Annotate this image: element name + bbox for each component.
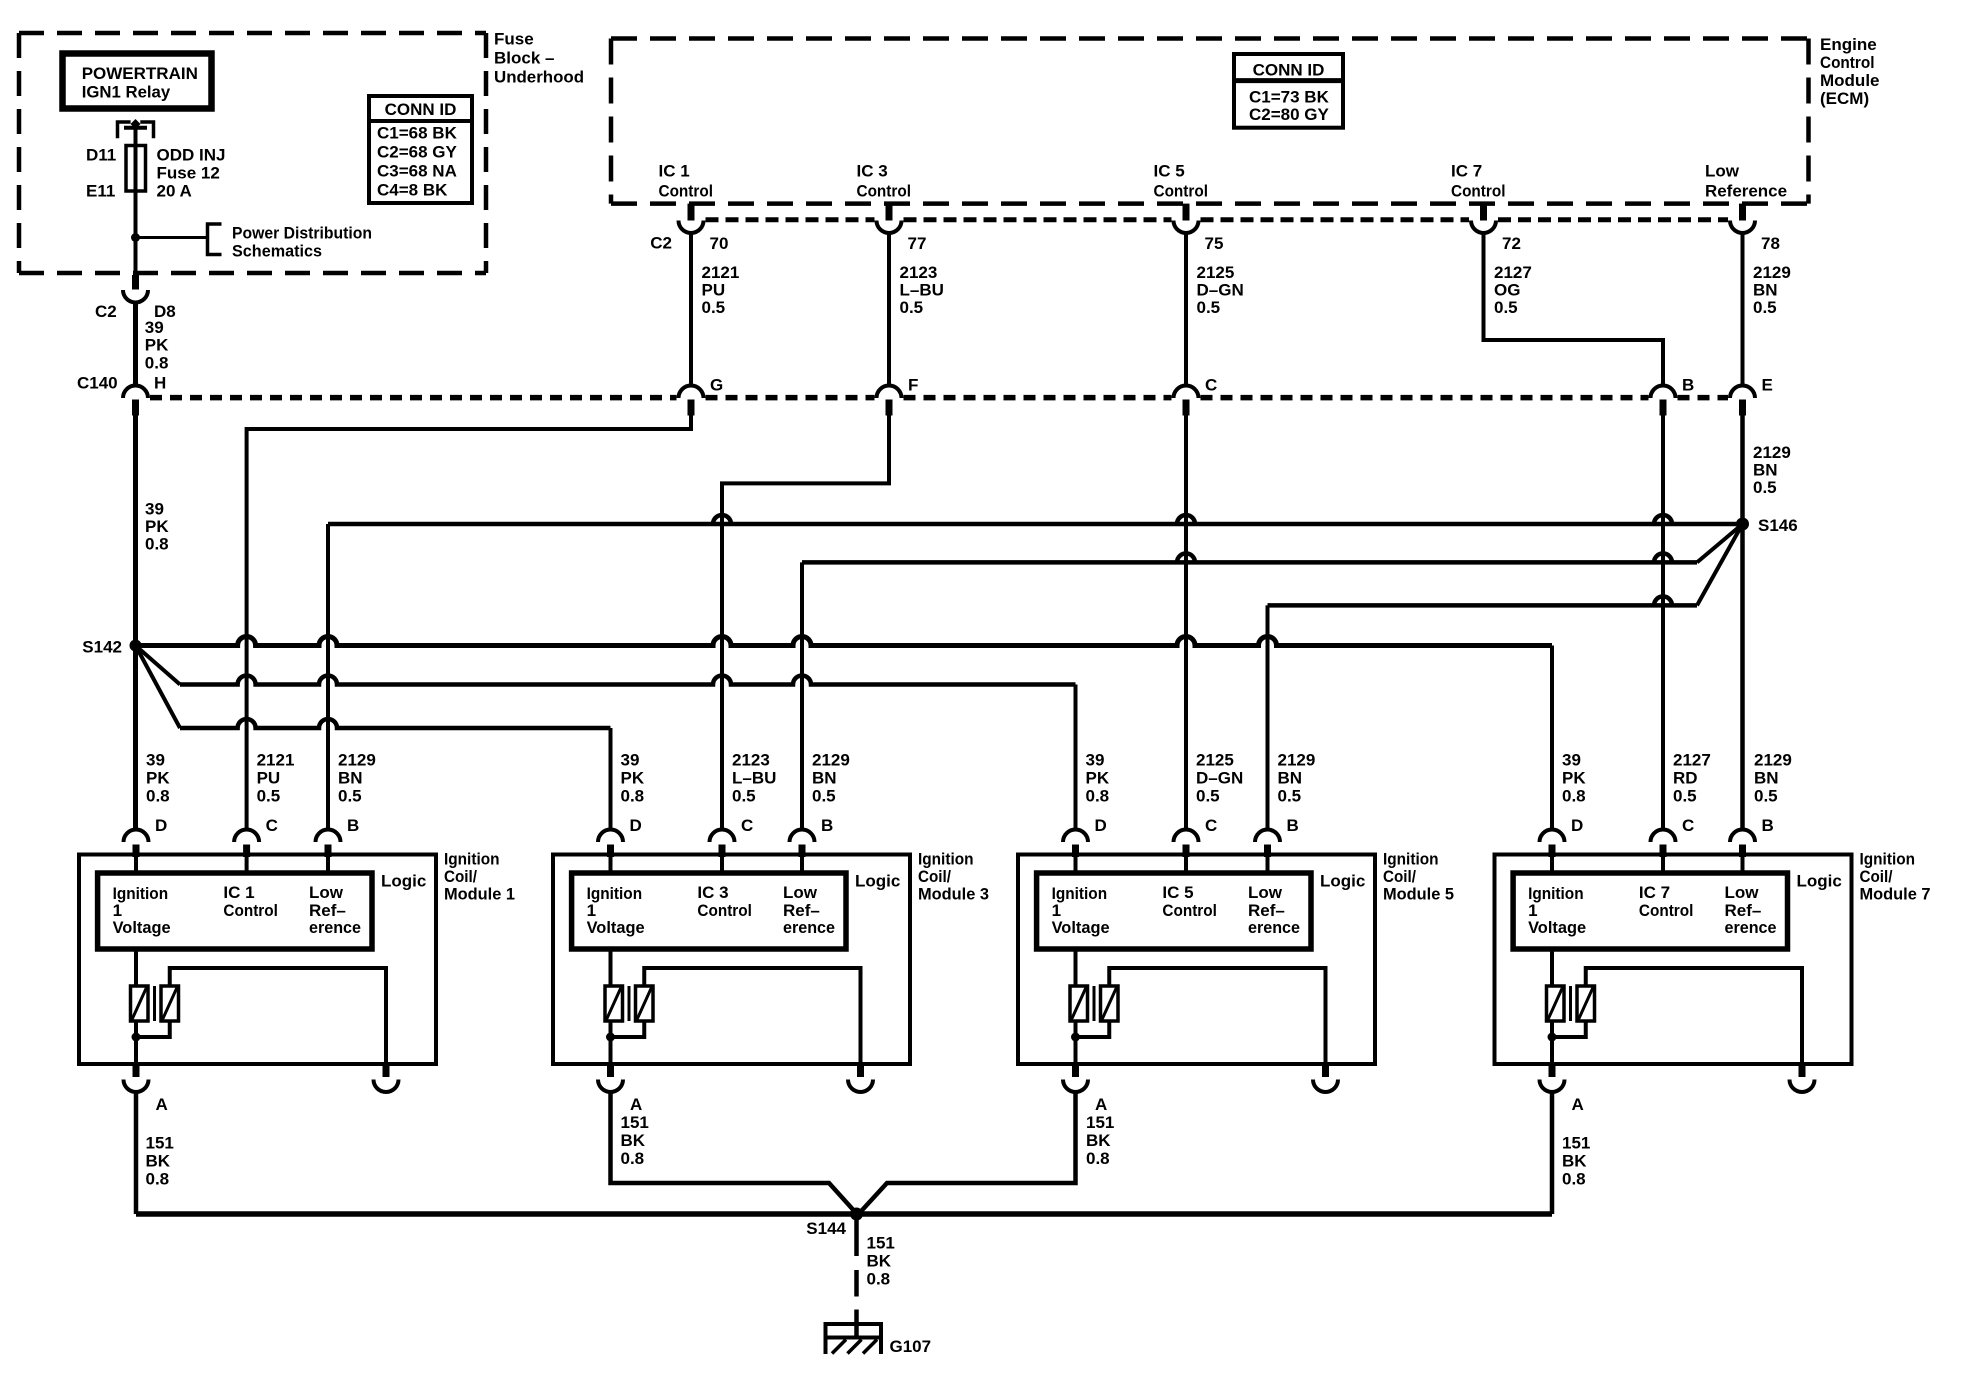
module 7 coil core	[1569, 986, 1572, 1021]
svg-text:0.5: 0.5	[812, 787, 836, 806]
module 7 pin A connector	[1549, 1064, 1556, 1077]
svg-text:B: B	[821, 816, 833, 835]
wire S142 trunk to module7 ignition voltage	[136, 637, 1553, 646]
ignition coil module 7 box	[1495, 855, 1852, 1065]
module 5 pin D connector	[1063, 830, 1088, 843]
C140 pin C connector	[1174, 386, 1199, 399]
svg-text:Voltage: Voltage	[113, 918, 171, 937]
wire relay to fuse	[134, 129, 138, 146]
svg-text:IC 1: IC 1	[223, 883, 254, 902]
svg-text:Module 7: Module 7	[1860, 885, 1931, 904]
module 1 coil core	[153, 986, 156, 1021]
wire IC3 control to C140 F	[887, 233, 891, 386]
svg-text:0.8: 0.8	[621, 787, 645, 806]
svg-text:Coil/: Coil/	[1860, 867, 1893, 886]
module 7 secondary return wire	[1586, 968, 1802, 1064]
ground bus wire	[136, 1211, 1552, 1217]
wire module7 A to ground bus	[1550, 1092, 1555, 1214]
svg-text:BN: BN	[1753, 281, 1778, 300]
svg-text:BN: BN	[1753, 461, 1778, 480]
svg-text:0.5: 0.5	[1673, 787, 1697, 806]
svg-text:39: 39	[1562, 751, 1581, 770]
svg-text:B: B	[1682, 376, 1694, 395]
svg-text:0.5: 0.5	[1754, 787, 1778, 806]
C140 pin B connector	[1651, 386, 1676, 399]
wire IC5 control to C140 C	[1184, 233, 1188, 386]
POWERTRAIN IGN1 Relay box	[63, 54, 212, 109]
svg-text:D: D	[1095, 816, 1107, 835]
svg-text:151: 151	[867, 1234, 895, 1253]
svg-text:75: 75	[1205, 234, 1224, 253]
svg-text:IC 3: IC 3	[697, 883, 728, 902]
svg-text:151: 151	[1086, 1113, 1114, 1132]
svg-text:2129: 2129	[1753, 263, 1791, 282]
svg-text:E11: E11	[86, 182, 115, 201]
module 1 secondary return wire	[170, 968, 386, 1064]
module 7 coil common junction	[1550, 1021, 1554, 1064]
svg-text:Module 1: Module 1	[444, 885, 515, 904]
svg-text:C: C	[1205, 376, 1217, 395]
svg-text:D: D	[1571, 816, 1583, 835]
svg-text:C3=68 NA: C3=68 NA	[377, 162, 457, 181]
svg-text:BK: BK	[621, 1131, 646, 1150]
svg-text:0.5: 0.5	[732, 787, 756, 806]
wire G to module1 IC1 control	[247, 416, 691, 830]
splice S146	[1736, 518, 1749, 531]
module 7 pin C connector	[1651, 830, 1676, 843]
svg-text:A: A	[630, 1095, 642, 1114]
svg-text:erence: erence	[1248, 918, 1300, 937]
module 7 logic label box	[1513, 873, 1787, 949]
module 3 pin A connector	[607, 1064, 614, 1077]
wire fuse to C2 connector	[134, 238, 138, 276]
svg-text:F: F	[908, 376, 918, 395]
module 3 coil common junction	[609, 1021, 613, 1064]
svg-text:CONN ID: CONN ID	[1253, 61, 1325, 80]
svg-text:0.8: 0.8	[146, 1170, 170, 1189]
svg-text:D11: D11	[86, 146, 116, 165]
module 3 coil secondary winding	[636, 986, 654, 1021]
svg-text:39: 39	[145, 318, 164, 337]
svg-text:C2=80 GY: C2=80 GY	[1249, 105, 1330, 124]
svg-text:2123: 2123	[732, 751, 770, 770]
C140 inline connector dashed line	[150, 395, 677, 401]
svg-text:POWERTRAIN: POWERTRAIN	[82, 64, 198, 83]
svg-text:C140: C140	[77, 374, 118, 393]
svg-text:Ignition: Ignition	[918, 850, 974, 869]
svg-text:Block –: Block –	[494, 49, 554, 68]
module 5 pin B connector	[1255, 830, 1280, 842]
module 7 secondary pin connector	[1799, 1064, 1806, 1077]
svg-text:Logic: Logic	[855, 872, 900, 891]
svg-text:0.8: 0.8	[146, 787, 170, 806]
wire S146 branch to module5 low ref	[1697, 524, 1743, 605]
module 3 pin B connector	[790, 830, 815, 842]
svg-text:BN: BN	[812, 769, 837, 788]
svg-text:0.5: 0.5	[1753, 298, 1777, 317]
svg-text:(ECM): (ECM)	[1820, 89, 1869, 108]
svg-text:39: 39	[621, 751, 640, 770]
svg-text:B: B	[1762, 816, 1774, 835]
module 1 pin A connector	[133, 1064, 140, 1077]
wire module1 A to ground bus 151 BK	[134, 1092, 139, 1214]
svg-text:2129: 2129	[1754, 751, 1792, 770]
module 3 logic label box	[572, 873, 846, 949]
module 3 coil primary winding	[609, 949, 613, 986]
svg-text:C: C	[266, 816, 278, 835]
module 1 coil secondary winding	[161, 986, 179, 1021]
svg-text:0.5: 0.5	[1278, 787, 1302, 806]
module 3 secondary return wire	[644, 968, 860, 1064]
svg-text:ODD INJ: ODD INJ	[157, 146, 226, 165]
ECM pin 75 connector	[1183, 204, 1190, 221]
svg-text:Control: Control	[1154, 182, 1209, 201]
C140 pin F connector	[877, 386, 902, 399]
ECM pin 78 connector	[1739, 204, 1746, 221]
ground symbol G107	[824, 1322, 884, 1326]
module 1 coil primary winding	[134, 949, 138, 986]
svg-text:0.8: 0.8	[1562, 787, 1586, 806]
svg-text:IC 7: IC 7	[1639, 883, 1670, 902]
fuse block CONN ID table	[369, 96, 472, 203]
svg-text:BK: BK	[1562, 1152, 1587, 1171]
svg-text:BK: BK	[146, 1152, 171, 1171]
svg-text:S142: S142	[82, 638, 122, 657]
fuse rectangle	[126, 146, 146, 192]
power distribution bracket symbol	[208, 224, 222, 255]
module 5 secondary return wire	[1109, 968, 1325, 1064]
svg-text:D–GN: D–GN	[1196, 769, 1243, 788]
svg-text:B: B	[1287, 816, 1299, 835]
svg-text:2125: 2125	[1197, 263, 1235, 282]
wire module3 A to S144	[611, 1092, 857, 1214]
svg-text:C2=68 GY: C2=68 GY	[377, 143, 458, 162]
svg-text:Low: Low	[1725, 883, 1760, 902]
svg-text:78: 78	[1761, 234, 1780, 253]
svg-text:S146: S146	[1758, 516, 1798, 535]
svg-text:erence: erence	[309, 918, 361, 937]
svg-text:G: G	[710, 376, 723, 395]
svg-text:Fuse 12: Fuse 12	[157, 164, 220, 183]
svg-text:D–GN: D–GN	[1197, 281, 1244, 300]
svg-text:Logic: Logic	[381, 872, 426, 891]
module 5 pin C connector	[1174, 830, 1199, 843]
module 7 coil secondary winding	[1577, 986, 1595, 1021]
svg-text:Reference: Reference	[1705, 182, 1787, 201]
wire S142 branch to module5 ignition voltage	[136, 646, 181, 685]
svg-text:0.5: 0.5	[702, 298, 726, 317]
module 1 secondary pin connector	[383, 1064, 390, 1077]
svg-text:0.8: 0.8	[145, 535, 169, 554]
module 5 logic label box	[1037, 873, 1311, 949]
module 5 secondary pin connector	[1322, 1064, 1329, 1077]
svg-text:PK: PK	[1086, 769, 1110, 788]
svg-text:BN: BN	[1278, 769, 1303, 788]
svg-text:C1=73 BK: C1=73 BK	[1249, 88, 1330, 107]
svg-text:PK: PK	[621, 769, 645, 788]
svg-text:151: 151	[621, 1113, 649, 1132]
wire to power distribution ref	[136, 236, 208, 239]
svg-text:0.8: 0.8	[1562, 1170, 1586, 1189]
module 1 coil common junction	[134, 1021, 138, 1064]
svg-text:0.8: 0.8	[145, 354, 169, 373]
svg-text:72: 72	[1502, 234, 1521, 253]
svg-text:PK: PK	[1562, 769, 1586, 788]
C140 pin E connector	[1730, 386, 1755, 399]
svg-text:PK: PK	[145, 517, 169, 536]
svg-text:Control: Control	[659, 182, 714, 201]
svg-text:151: 151	[1562, 1134, 1590, 1153]
module 3 pin D connector	[598, 830, 623, 843]
svg-text:A: A	[156, 1095, 168, 1114]
module 5 pin A connector	[1072, 1064, 1079, 1077]
svg-text:Ignition: Ignition	[1860, 850, 1916, 869]
svg-text:C: C	[1205, 816, 1217, 835]
svg-text:2127: 2127	[1494, 263, 1532, 282]
svg-text:C: C	[741, 816, 753, 835]
connector C2 cup	[123, 290, 148, 303]
svg-text:Coil/: Coil/	[918, 867, 951, 886]
svg-text:RD: RD	[1673, 769, 1698, 788]
ignition coil module 5 box	[1018, 855, 1375, 1065]
connector C2 stub	[132, 275, 139, 290]
svg-text:C1=68 BK: C1=68 BK	[377, 124, 458, 143]
module 5 coil common junction	[1074, 1021, 1078, 1064]
module 7 pin D connector	[1540, 830, 1565, 843]
wire S144 to G107 ground	[854, 1214, 859, 1256]
module 5 coil primary winding	[1074, 949, 1078, 986]
wire Low Reference to C140 E	[1741, 233, 1745, 386]
svg-text:Voltage: Voltage	[1528, 918, 1586, 937]
svg-text:B: B	[347, 816, 359, 835]
module 3 secondary pin connector	[857, 1064, 864, 1077]
svg-text:Module: Module	[1820, 71, 1880, 90]
module 1 pin B connector	[316, 830, 341, 843]
svg-text:E: E	[1762, 376, 1773, 395]
svg-text:C4=8 BK: C4=8 BK	[377, 181, 448, 200]
module 5 coil secondary winding	[1101, 986, 1119, 1021]
module 7 coil primary winding	[1550, 949, 1554, 986]
svg-text:BK: BK	[1086, 1131, 1111, 1150]
svg-text:0.5: 0.5	[1196, 787, 1220, 806]
svg-text:151: 151	[146, 1134, 174, 1153]
svg-text:20 A: 20 A	[157, 182, 192, 201]
svg-text:Low: Low	[1705, 162, 1740, 181]
svg-text:C2: C2	[650, 234, 672, 253]
svg-text:Logic: Logic	[1797, 872, 1842, 891]
svg-text:Low: Low	[309, 883, 344, 902]
svg-text:IC 1: IC 1	[659, 162, 690, 181]
fuse block underhood dashed box	[19, 33, 486, 273]
ignition coil module 3 box	[553, 855, 910, 1065]
module 1 pin D connector	[124, 830, 149, 843]
C140 pin H connector	[123, 386, 148, 399]
ignition coil module 1 box	[79, 855, 436, 1065]
ECM CONN ID table	[1234, 54, 1343, 128]
svg-text:Low: Low	[1248, 883, 1283, 902]
svg-text:2121: 2121	[702, 263, 740, 282]
svg-text:IC 7: IC 7	[1451, 162, 1482, 181]
engine control module dashed box	[611, 39, 1809, 204]
svg-text:Control: Control	[1820, 53, 1875, 72]
svg-text:2121: 2121	[257, 751, 295, 770]
svg-text:Ignition: Ignition	[1383, 850, 1439, 869]
svg-text:Control: Control	[697, 901, 752, 920]
svg-text:2125: 2125	[1196, 751, 1234, 770]
svg-text:IC 3: IC 3	[857, 162, 888, 181]
svg-text:PK: PK	[146, 769, 170, 788]
wire IC7 control to C140 B	[1484, 233, 1664, 386]
svg-text:Schematics: Schematics	[232, 242, 322, 261]
wire E / 2129 BN to S146 and module7 low ref	[1740, 416, 1745, 830]
wire S146 branch to module3 low ref	[1697, 524, 1743, 562]
junction dot power distribution tap	[131, 233, 140, 242]
svg-text:C2: C2	[95, 302, 117, 321]
svg-text:0.8: 0.8	[867, 1270, 891, 1289]
svg-text:0.8: 0.8	[1086, 1149, 1110, 1168]
svg-text:CONN ID: CONN ID	[385, 100, 457, 119]
svg-text:2127: 2127	[1673, 751, 1711, 770]
module 7 pin B connector	[1730, 830, 1755, 843]
svg-text:2129: 2129	[812, 751, 850, 770]
splice S142	[133, 416, 138, 830]
svg-text:Control: Control	[1451, 182, 1506, 201]
svg-text:Control: Control	[1162, 901, 1217, 920]
svg-text:2129: 2129	[338, 751, 376, 770]
wire IC1 control to C140 G	[689, 233, 693, 386]
svg-text:0.8: 0.8	[1086, 787, 1110, 806]
ECM pin 77 connector	[886, 204, 893, 221]
svg-text:Module 3: Module 3	[918, 885, 989, 904]
ECM C2 connector face dashed line	[706, 217, 875, 222]
wire S146 trunk to module1 low ref (B pin)	[328, 515, 1743, 524]
svg-text:2129: 2129	[1753, 443, 1791, 462]
wire 39 PK to C140	[133, 303, 138, 386]
wire module5 A to S144	[859, 1092, 1076, 1214]
svg-text:Control: Control	[1639, 901, 1694, 920]
module 1 logic label box	[98, 873, 372, 949]
svg-text:Fuse: Fuse	[494, 30, 534, 49]
svg-text:L–BU: L–BU	[900, 281, 944, 300]
svg-text:D: D	[630, 816, 642, 835]
svg-text:IC 5: IC 5	[1162, 883, 1193, 902]
svg-text:0.5: 0.5	[257, 787, 281, 806]
splice S144	[850, 1208, 863, 1221]
C140 pin G connector	[679, 386, 704, 399]
svg-text:0.5: 0.5	[900, 298, 924, 317]
svg-text:L–BU: L–BU	[732, 769, 776, 788]
svg-text:Ignition: Ignition	[444, 850, 500, 869]
svg-text:erence: erence	[1725, 918, 1777, 937]
svg-text:Voltage: Voltage	[1052, 918, 1110, 937]
svg-text:G107: G107	[890, 1337, 932, 1356]
svg-text:IC 5: IC 5	[1154, 162, 1185, 181]
svg-text:39: 39	[146, 751, 165, 770]
svg-text:Voltage: Voltage	[587, 918, 645, 937]
svg-text:Control: Control	[857, 182, 912, 201]
svg-text:A: A	[1095, 1095, 1107, 1114]
svg-text:0.8: 0.8	[621, 1149, 645, 1168]
svg-text:PK: PK	[145, 336, 169, 355]
svg-text:BN: BN	[1754, 769, 1779, 788]
svg-text:0.5: 0.5	[1494, 298, 1518, 317]
wire through fuse	[134, 146, 138, 238]
svg-text:OG: OG	[1494, 281, 1520, 300]
svg-text:D: D	[155, 816, 167, 835]
wire F to module3 IC3 control	[722, 416, 889, 830]
ECM pin 72 connector	[1480, 204, 1487, 221]
svg-text:77: 77	[908, 234, 927, 253]
wire B to module7 IC7 control	[1661, 416, 1665, 830]
svg-text:Low: Low	[783, 883, 818, 902]
svg-text:C: C	[1682, 816, 1694, 835]
ECM pin 70 connector	[688, 204, 695, 221]
svg-text:0.5: 0.5	[1197, 298, 1221, 317]
svg-text:Module 5: Module 5	[1383, 885, 1454, 904]
svg-text:BN: BN	[338, 769, 363, 788]
svg-text:Control: Control	[223, 901, 278, 920]
svg-text:Coil/: Coil/	[1383, 867, 1416, 886]
svg-text:39: 39	[1086, 751, 1105, 770]
svg-text:39: 39	[145, 500, 164, 519]
svg-text:70: 70	[710, 234, 729, 253]
svg-text:0.5: 0.5	[338, 787, 362, 806]
svg-text:Logic: Logic	[1320, 872, 1365, 891]
svg-text:erence: erence	[783, 918, 835, 937]
svg-text:2123: 2123	[900, 263, 938, 282]
svg-text:0.5: 0.5	[1753, 478, 1777, 497]
module 5 coil core	[1093, 986, 1096, 1021]
relay contact symbol	[118, 122, 131, 138]
svg-text:H: H	[154, 374, 166, 393]
svg-text:S144: S144	[806, 1219, 846, 1238]
wire S142 branch to module3 ignition voltage	[136, 646, 181, 729]
wire C to module5 IC5 control	[1184, 416, 1188, 830]
module 3 coil core	[628, 986, 631, 1021]
module 3 pin C connector	[710, 830, 735, 843]
svg-text:Coil/: Coil/	[444, 867, 477, 886]
svg-text:BK: BK	[867, 1252, 892, 1271]
svg-text:PU: PU	[702, 281, 726, 300]
svg-text:Engine: Engine	[1820, 35, 1877, 54]
svg-text:PU: PU	[257, 769, 281, 788]
svg-text:Underhood: Underhood	[494, 68, 584, 87]
module 1 pin C connector	[234, 830, 259, 843]
svg-text:Power Distribution: Power Distribution	[232, 224, 372, 243]
svg-text:A: A	[1572, 1095, 1584, 1114]
svg-text:2129: 2129	[1278, 751, 1316, 770]
svg-text:IGN1 Relay: IGN1 Relay	[82, 83, 171, 102]
